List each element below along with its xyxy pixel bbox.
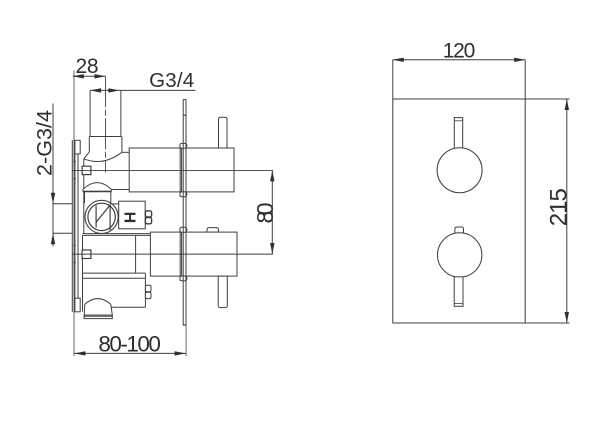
svg-text:215: 215	[546, 188, 573, 226]
svg-text:H: H	[121, 212, 138, 224]
svg-text:80-100: 80-100	[98, 331, 161, 356]
svg-text:G3/4: G3/4	[149, 69, 194, 92]
svg-text:2-G3/4: 2-G3/4	[32, 110, 56, 176]
svg-text:80: 80	[252, 203, 278, 224]
svg-text:120: 120	[443, 40, 476, 63]
svg-text:28: 28	[76, 55, 99, 78]
